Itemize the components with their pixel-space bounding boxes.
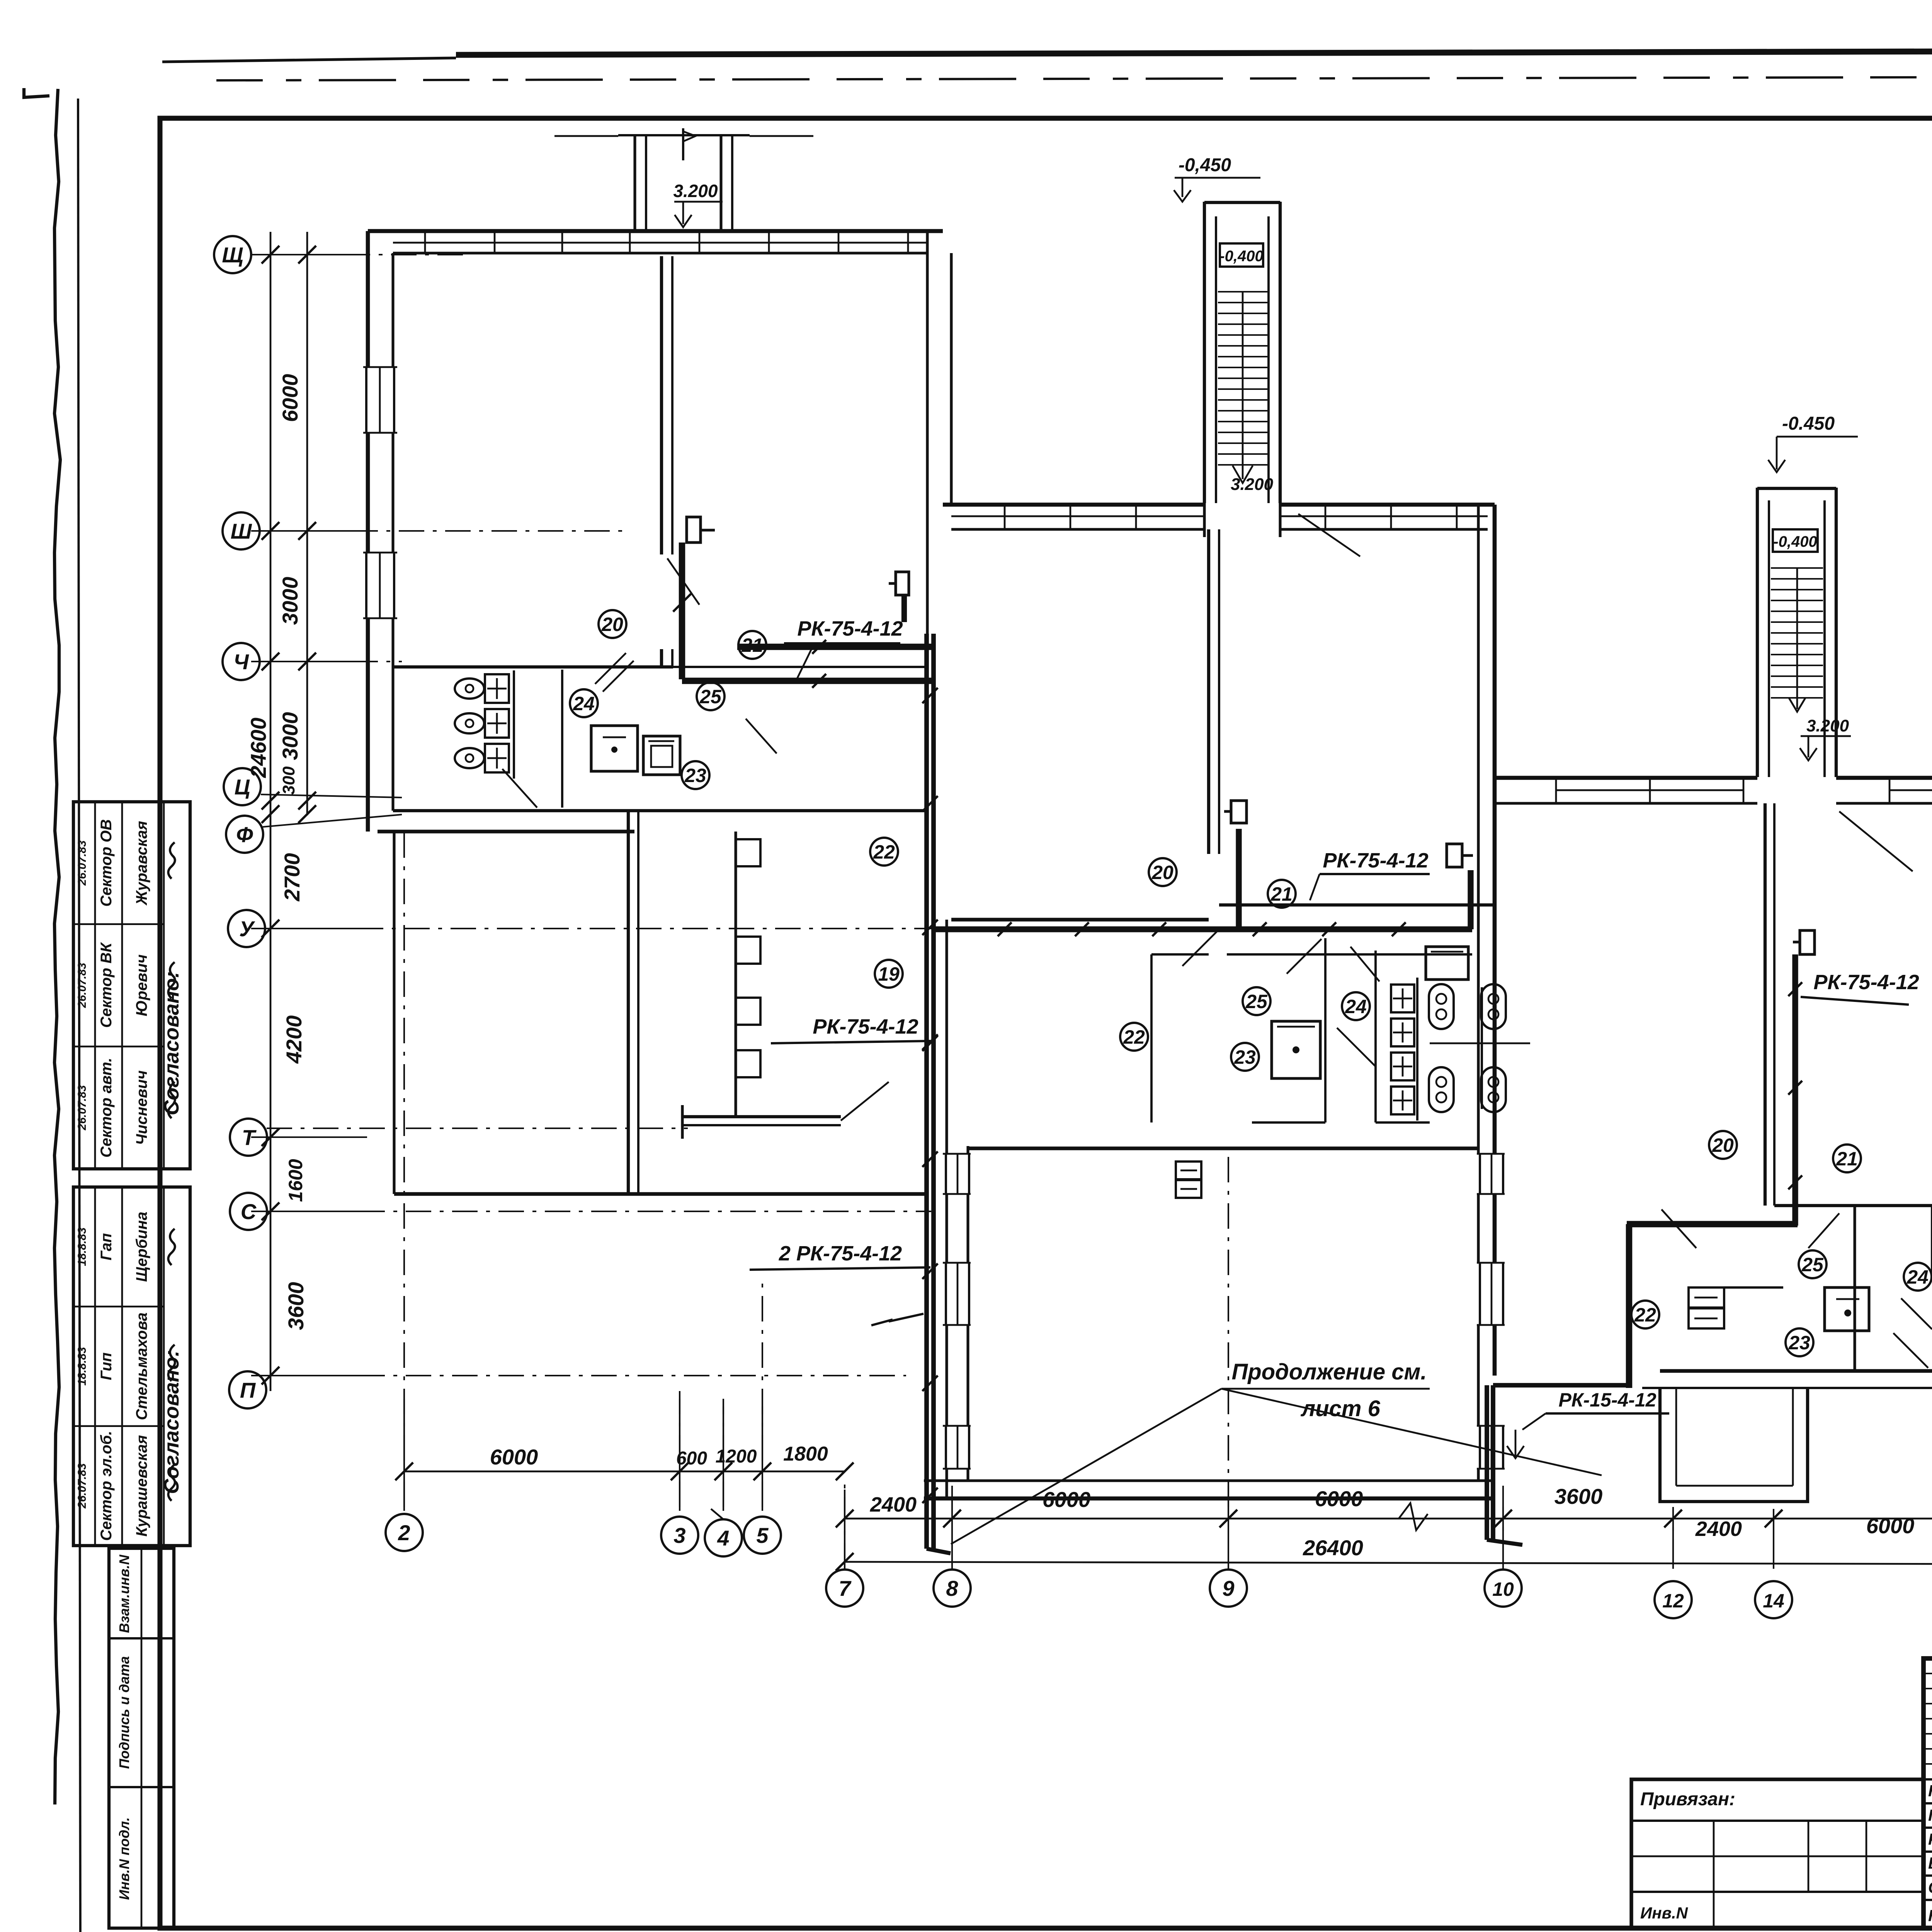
left wing top wall inner line: [393, 252, 927, 254]
left wing inner left wall: [391, 253, 394, 811]
svg-text:1800: 1800: [783, 1443, 828, 1465]
room circle 21: [738, 631, 766, 659]
svg-text:Продолжение см.: Продолжение см.: [1231, 1359, 1427, 1384]
svg-text:РК-75-4-12: РК-75-4-12: [1323, 849, 1428, 872]
ticks on corridor cable: [998, 922, 1012, 936]
axis circle Ч: [223, 643, 260, 680]
left bottom block bottom wall: [394, 1192, 927, 1196]
right block top wall mullions: [1555, 778, 1557, 803]
left bottom interior horizontal wall: [682, 1115, 841, 1118]
svg-text:14: 14: [1763, 1590, 1784, 1612]
axis circle 5: [744, 1517, 781, 1554]
svg-text:1600: 1600: [285, 1159, 306, 1202]
axis line У: [265, 928, 1229, 929]
svg-text:23: 23: [1234, 1046, 1256, 1068]
svg-text:-0,400: -0,400: [1773, 533, 1817, 550]
right block top wall window lines: [1556, 789, 1743, 791]
outlet box room 20 middle: [1231, 801, 1247, 823]
top scan streak 1: [456, 49, 1932, 55]
left wing top wall window mid line: [393, 242, 927, 244]
room circle 24: [1904, 1263, 1932, 1291]
svg-text:3.200: 3.200: [1231, 475, 1274, 494]
circle connector stubs: [711, 1509, 723, 1519]
cable branch riser room 21 middle: [1468, 870, 1473, 929]
svg-text:20: 20: [601, 614, 623, 635]
middle block bottom wall / corridor 25: [951, 918, 1209, 921]
axis line Ц: [261, 794, 402, 798]
svg-text:6000: 6000: [1315, 1486, 1363, 1511]
room circle 20: [1149, 858, 1177, 886]
svg-text:4: 4: [717, 1526, 729, 1550]
left margin table 2 (Согласовано lower): [73, 1187, 190, 1546]
top scan streak 2 (dashed): [216, 76, 1932, 80]
room circle 21: [1268, 880, 1296, 908]
room circle 22: [870, 838, 898, 866]
right stair treads: [1771, 567, 1823, 569]
middle block interior wall 20|21: [1207, 529, 1210, 854]
svg-text:Н.контр.: Н.контр.: [1928, 1906, 1932, 1925]
break symbol on chain B: [1399, 1503, 1428, 1530]
left wall below Ф (thin): [393, 832, 395, 1194]
cable run A to shared wall: [682, 678, 934, 684]
left dim ticks: [262, 246, 279, 264]
svg-text:Подпись и дата: Подпись и дата: [116, 1656, 132, 1769]
cable riser left wing room 20: [679, 543, 685, 679]
svg-text:У: У: [239, 917, 255, 941]
axis circle У: [228, 910, 265, 947]
room circle 22: [1631, 1301, 1659, 1328]
svg-text:18.8.83: 18.8.83: [76, 1227, 88, 1266]
svg-text:18.8.83: 18.8.83: [76, 1347, 88, 1386]
svg-text:10: 10: [1492, 1578, 1514, 1600]
svg-text:25: 25: [1801, 1254, 1824, 1276]
left wing top wall window mullions: [424, 231, 426, 253]
left margin stamp column (Взам.инв.N / Подпись и дата / Инв.N подл.): [109, 1548, 174, 1928]
room pointer lines: [595, 653, 626, 684]
axis circle Ц: [224, 768, 261, 805]
middle stair right wall: [1267, 216, 1270, 503]
svg-text:600: 600: [676, 1448, 707, 1469]
axis line Ч: [260, 661, 402, 662]
toilet partition left wing: [561, 670, 563, 808]
svg-text:РК-15-4-12: РК-15-4-12: [1558, 1389, 1656, 1411]
svg-text:2: 2: [398, 1520, 410, 1545]
svg-text:С: С: [241, 1199, 257, 1224]
middle room 22 cabinet: [1176, 1162, 1201, 1179]
axis circle 2: [386, 1514, 423, 1551]
svg-text:Гип: Гип: [98, 1352, 115, 1380]
right block interior strip wall: [1774, 1204, 1932, 1207]
svg-text:3600: 3600: [1554, 1484, 1603, 1509]
svg-text:3.200: 3.200: [673, 181, 718, 201]
svg-text:Согласовано:: Согласовано:: [160, 1350, 183, 1494]
axis circle 10: [1485, 1570, 1522, 1607]
ticks right cable: [1788, 982, 1802, 996]
svg-text:-0.450: -0.450: [1782, 413, 1835, 434]
svg-text:300: 300: [279, 766, 298, 795]
axis circle 8: [934, 1570, 971, 1607]
middle rooms door diagonals: [1182, 931, 1217, 966]
left axis extension stubs: [251, 254, 367, 255]
middle stair top wall: [1204, 201, 1280, 204]
middle room 24 sink: [1426, 947, 1468, 980]
middle block top wall mid window line: [951, 515, 1204, 517]
right block interior wall 20|21: [1764, 803, 1767, 1206]
svg-text:-0,450: -0,450: [1179, 155, 1231, 175]
toilet stalls left wing: [485, 674, 509, 703]
svg-text:Журавская: Журавская: [133, 821, 150, 906]
middle stair bottom landing walls: [1203, 503, 1206, 537]
svg-text:24: 24: [1906, 1266, 1929, 1288]
sheet scan left edge jagged line: [54, 89, 60, 1804]
Ф axis wall: [378, 830, 634, 833]
axis line Ш: [260, 530, 626, 532]
horizontal cable corridor y2405: [934, 926, 1472, 932]
svg-text:25: 25: [1245, 991, 1268, 1012]
room circle 25: [697, 682, 724, 710]
svg-text:22: 22: [1634, 1304, 1656, 1326]
svg-text:6000: 6000: [278, 374, 302, 422]
axis circle 12: [1655, 1581, 1692, 1618]
svg-text:Щербина: Щербина: [133, 1212, 150, 1282]
svg-text:Вед.инж.: Вед.инж.: [1928, 1854, 1932, 1872]
vertical axis lines from bottom: [403, 831, 405, 1507]
buffet room 23 right block: [1825, 1287, 1869, 1331]
bottom-middle room windows left: [943, 1154, 971, 1194]
middle room 23 buffet counter: [1272, 1021, 1320, 1078]
axis circle 7: [826, 1570, 863, 1607]
svg-text:2400: 2400: [1695, 1517, 1742, 1541]
left wall windows (white gaps + thin lines): [363, 367, 397, 433]
axis circle П: [229, 1371, 266, 1408]
svg-text:2400: 2400: [870, 1493, 917, 1516]
svg-text:Взам.инв.N: Взам.инв.N: [116, 1554, 132, 1633]
svg-text:23: 23: [1788, 1332, 1810, 1354]
svg-text:3600: 3600: [284, 1282, 308, 1330]
cable tick marks left wing: [673, 594, 691, 612]
door swing room 20|21 left: [667, 558, 699, 605]
svg-text:23: 23: [684, 765, 706, 786]
svg-text:2 РК-75-4-12: 2 РК-75-4-12: [779, 1242, 902, 1265]
left margin table 1 (Согласовано upper): [73, 802, 190, 1169]
svg-text:Сектор ОВ: Сектор ОВ: [98, 819, 115, 906]
svg-text:20: 20: [1712, 1134, 1734, 1156]
cable branch riser to room 20 middle outlet: [1236, 829, 1242, 929]
svg-text:3: 3: [673, 1523, 685, 1548]
middle urinal ovals: [1429, 984, 1454, 1029]
svg-text:РК-75-4-12: РК-75-4-12: [813, 1015, 918, 1038]
svg-text:26400: 26400: [1303, 1536, 1363, 1560]
cable outlet box left wing room 20: [687, 517, 701, 543]
middle stair left wall: [1203, 202, 1206, 503]
axis line П: [267, 1375, 906, 1376]
door swing hall: [841, 1082, 889, 1121]
porch flag mark: [682, 128, 684, 160]
left bottom cabinets wall: [627, 811, 630, 1194]
svg-text:21: 21: [1270, 883, 1293, 905]
svg-text:-0,400: -0,400: [1219, 248, 1263, 265]
axis circle 9: [1210, 1570, 1247, 1607]
svg-text:Ф: Ф: [236, 822, 253, 847]
svg-text:7: 7: [838, 1576, 852, 1600]
svg-text:Курашевская: Курашевская: [133, 1435, 150, 1537]
svg-text:Инв.N: Инв.N: [1640, 1904, 1689, 1922]
svg-text:3000: 3000: [278, 712, 302, 760]
left dim chain second line: [306, 232, 308, 815]
svg-text:РК-75-4-12: РК-75-4-12: [797, 617, 903, 640]
axis circle 3: [661, 1517, 698, 1554]
right cable horizontal to left: [1627, 1221, 1798, 1228]
left wing outer top wall: [368, 229, 943, 233]
svg-text:Инв.N подл.: Инв.N подл.: [116, 1817, 132, 1900]
svg-text:8: 8: [946, 1576, 958, 1600]
outlet box room 21 left: [896, 572, 909, 595]
svg-text:Ц: Ц: [235, 775, 250, 799]
svg-text:26.07.83: 26.07.83: [76, 840, 88, 886]
svg-text:26.07.83: 26.07.83: [76, 963, 88, 1008]
sink unit left wing room 23: [591, 726, 638, 771]
svg-text:лист 6: лист 6: [1300, 1396, 1380, 1421]
svg-text:21: 21: [1836, 1148, 1858, 1170]
cabinet column with niches: [734, 832, 737, 1117]
svg-text:Гл.спец.: Гл.спец.: [1928, 1806, 1932, 1824]
svg-text:25: 25: [699, 686, 722, 707]
shared wall left wing / middle block (vertical x~2400-2462): [926, 231, 929, 824]
svg-text:6000: 6000: [1043, 1487, 1091, 1512]
middle block right wall: [1477, 505, 1480, 1480]
продолжение leader tent: [951, 1389, 1221, 1544]
right stair -0,400 boxed mark: [1773, 529, 1818, 552]
svg-text:Рук.сект.: Рук.сект.: [1928, 1830, 1932, 1848]
room circle 23: [1231, 1043, 1259, 1071]
middle block door diag: [1298, 514, 1360, 556]
svg-text:24: 24: [573, 693, 595, 714]
svg-text:Ч: Ч: [233, 650, 249, 674]
left wing interior wall rooms 20|21: [660, 256, 663, 554]
middle block top wall inner: [951, 528, 1204, 531]
svg-text:Чисневич: Чисневич: [133, 1070, 150, 1145]
bottom-middle big room top wall: [968, 1146, 1478, 1150]
right stair shaft walls: [1756, 488, 1759, 777]
axis circle Щ: [214, 236, 251, 273]
room circle 20: [1709, 1131, 1737, 1159]
right block bottom wall: [1660, 1369, 1932, 1372]
axis circle Ш: [223, 512, 260, 549]
svg-text:9: 9: [1222, 1576, 1234, 1600]
svg-text:1200: 1200: [716, 1446, 757, 1467]
svg-text:19: 19: [878, 963, 900, 985]
outlet box room 21 middle: [1447, 844, 1462, 867]
axis line Т: [267, 1128, 688, 1129]
top-left corner registration mark: [24, 88, 49, 97]
room circle 21: [1833, 1145, 1861, 1172]
svg-text:20: 20: [1151, 862, 1173, 883]
svg-text:Ш: Ш: [231, 519, 252, 543]
middle stair +0,400 boxed mark: [1220, 243, 1263, 267]
svg-text:Стельмахова: Стельмахова: [133, 1313, 150, 1420]
axis line Ф: [263, 815, 402, 827]
right block cable riser down: [1792, 954, 1798, 1226]
svg-text:21: 21: [741, 634, 763, 656]
bottom-middle room windows right: [1477, 1154, 1505, 1194]
svg-text:Щ: Щ: [222, 243, 243, 267]
left wing outer left wall: [366, 231, 370, 832]
bottom extension lines: [403, 1399, 405, 1511]
right cable down through room 22: [1626, 1224, 1633, 1388]
svg-text:3000: 3000: [278, 577, 302, 625]
right block door diagonals: [1839, 811, 1913, 871]
bottom chain B line: [845, 1518, 1932, 1520]
cable run B (upper): [737, 644, 934, 650]
svg-text:Юревич: Юревич: [133, 954, 150, 1016]
middle block top wall outer: [943, 503, 1204, 507]
room circle 23: [1786, 1328, 1813, 1356]
left dim chain main line: [270, 232, 272, 1391]
svg-text:22: 22: [1123, 1026, 1145, 1048]
svg-text:2700: 2700: [280, 853, 304, 902]
bottom chain C total line: [845, 1562, 1932, 1564]
main double cable 2РК vertical: [924, 634, 929, 1549]
bottom chain A line: [404, 1471, 845, 1473]
svg-text:3.200: 3.200: [1806, 716, 1849, 735]
middle block top wall mullions: [1004, 505, 1006, 529]
svg-text:Ст.инж.: Ст.инж.: [1928, 1878, 1932, 1896]
svg-text:РК-75-4-12: РК-75-4-12: [1813, 971, 1919, 994]
middle stair center rail and arrow: [1242, 292, 1244, 479]
svg-text:5: 5: [756, 1523, 769, 1548]
room circle 23: [682, 761, 709, 789]
room circle 24: [1342, 992, 1370, 1020]
svg-text:Сектор эл.об.: Сектор эл.об.: [98, 1431, 115, 1541]
sheet thin border left: [78, 99, 80, 1932]
axis line С: [267, 1211, 931, 1212]
room circle 19: [875, 960, 903, 988]
axis circle 14: [1755, 1581, 1792, 1618]
door diagonals left wing: [502, 769, 537, 808]
cable along middle room right wall down: [1485, 1385, 1489, 1540]
room circle 20: [599, 610, 626, 638]
cable connector along bay top: [1493, 1383, 1629, 1388]
привязан table: [1631, 1779, 1923, 1928]
axis circle С: [230, 1193, 267, 1230]
svg-text:12: 12: [1662, 1590, 1684, 1612]
svg-text:Нач.отд.: Нач.отд.: [1928, 1782, 1932, 1800]
room circle 25: [1799, 1250, 1827, 1278]
axis circle Т: [230, 1119, 267, 1156]
right block top wall outer: [1495, 776, 1757, 780]
svg-text:26.07.83: 26.07.83: [76, 1085, 88, 1131]
middle stair treads: [1218, 291, 1267, 293]
bottom-middle big room bottom wall: [924, 1479, 1495, 1482]
svg-text:22: 22: [873, 841, 895, 863]
room circle 24: [570, 689, 598, 717]
svg-text:Т: Т: [242, 1125, 257, 1150]
left wing bottom wall (toilet bottom): [393, 809, 927, 812]
axis line Щ: [252, 254, 469, 255]
middle room 23 walls: [1374, 951, 1377, 1122]
svg-text:24: 24: [1345, 996, 1367, 1017]
title block outer: [1923, 1658, 1932, 1928]
svg-text:6000: 6000: [490, 1445, 538, 1469]
svg-text:6000: 6000: [1866, 1514, 1915, 1538]
right stair center rail arrow: [1796, 568, 1798, 709]
svg-text:Гап: Гап: [98, 1233, 115, 1260]
room circle 22: [1120, 1023, 1148, 1051]
right block bay protrusion: [1660, 1388, 1808, 1502]
svg-text:Привязан:: Привязан:: [1640, 1789, 1735, 1810]
svg-text:Сектор ВК: Сектор ВК: [98, 942, 115, 1028]
bottom-middle big room left wall: [945, 920, 948, 1498]
bottom hook right cable: [1487, 1540, 1522, 1545]
svg-text:26.07.83: 26.07.83: [76, 1463, 88, 1509]
axis circle Ф: [226, 816, 263, 853]
junction ticks on main cable: [922, 688, 938, 703]
middle toilets room 24: [1391, 985, 1414, 1012]
middle rooms partition walls: [1150, 954, 1153, 1122]
svg-text:4200: 4200: [282, 1015, 306, 1064]
cable bottom hook: [927, 1549, 951, 1553]
svg-text:Сектор авт.: Сектор авт.: [98, 1058, 115, 1157]
cabinet room 22 right block: [1689, 1287, 1724, 1308]
left wing entrance porch (top): [618, 134, 750, 136]
room circle 25: [1243, 987, 1270, 1015]
axis circle 4: [705, 1519, 742, 1556]
svg-text:П: П: [240, 1378, 256, 1402]
toilet room top wall (left wing): [393, 665, 673, 668]
right block outlet box: [1800, 930, 1815, 954]
